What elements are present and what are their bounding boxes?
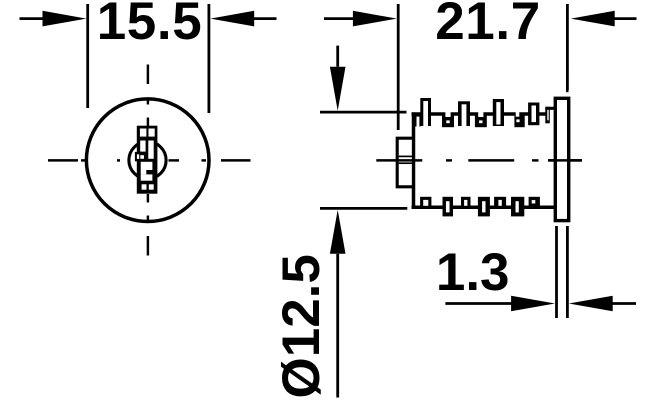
dimension 1.3 : right arrow: [611, 302, 637, 305]
keyhole cell mid-right: [148, 141, 153, 159]
dimension 15.5 : right extension line: [207, 4, 210, 113]
dimension 15.5 : left arrow: [20, 17, 46, 20]
keyhole lower cell bottom part: [141, 174, 153, 180]
bottom wafer tab 2: [478, 197, 490, 217]
dimension diameter 12.5 : top extension line: [320, 111, 407, 114]
collar ledge before flange (top): [545, 107, 556, 110]
dimension 21.7 : right extension line: [566, 4, 569, 90]
dimension diameter 12.5 : down arrow: [336, 46, 339, 67]
dimension diameter 12.5 : up arrow: [336, 254, 339, 398]
keyhole plate body: [137, 126, 158, 194]
svg-text:21.7: 21.7: [435, 0, 541, 51]
dimension 1.3 : right extension line: [566, 226, 569, 318]
horizontal centerline (side view): [376, 159, 582, 161]
keyhole cell mid-left upper: [140, 141, 145, 152]
dimension 15.5 : left extension line: [86, 4, 89, 108]
flange at right end: [555, 98, 568, 220]
vertical centerline (front view): [147, 65, 149, 256]
body top line: [412, 112, 547, 116]
body bottom line: [412, 206, 556, 210]
keyhole left side tab hole: [137, 154, 139, 159]
bottom wafer tab 1: [443, 197, 454, 217]
bottom bump 2: [461, 197, 471, 207]
top slot 3: [514, 113, 524, 128]
core circle (plug): [129, 142, 166, 179]
cylinder face outer circle: [86, 99, 209, 222]
keyhole lower cell upper part: [141, 162, 153, 170]
body left edge: [412, 112, 416, 208]
keyhole cell top-left: [140, 129, 147, 137]
nose inner line 1: [399, 155, 412, 157]
slot at body left edge (top): [415, 113, 421, 127]
svg-text:15.5: 15.5: [97, 0, 203, 51]
keyhole cell bottom-left: [142, 184, 147, 189]
svg-text:1.3: 1.3: [436, 243, 510, 302]
top wafer tab 1: [420, 98, 431, 126]
horizontal centerline (front view): [48, 159, 251, 161]
dimension 21.7 : right arrow: [612, 17, 637, 20]
bottom bump 3: [494, 197, 506, 207]
top wafer tab 4: [528, 103, 539, 126]
keyhole cell mid-left lower: [140, 155, 144, 159]
dimension 1.3 : left arrow: [445, 302, 513, 305]
keyhole cell bottom-right: [149, 184, 154, 189]
top wafer tab 3: [493, 99, 504, 126]
dimension 15.5 : right arrow: [252, 17, 277, 20]
dimension diameter 12.5 : bottom extension line: [320, 207, 407, 210]
top wafer tab 2: [458, 101, 470, 126]
vertical centerline at flange: [566, 67, 568, 93]
keyhole lower cell left strip: [141, 170, 147, 174]
nose inner line 2: [399, 162, 412, 164]
nose (cam) on left end: [397, 138, 413, 187]
centerline dash through nose: [396, 159, 414, 161]
top collar wall before flange: [545, 107, 550, 124]
bottom wafer tab 3: [511, 197, 524, 217]
bottom bump 1: [420, 197, 431, 207]
dimension 21.7 : left arrow: [324, 17, 355, 20]
centerline dash crossing flange: [548, 159, 582, 161]
keyhole left side tab: [135, 152, 140, 161]
top slot 1: [442, 113, 454, 128]
keyhole cell top-right: [149, 129, 155, 137]
dimension 21.7 : left extension line: [397, 4, 400, 130]
bottom bump 4: [529, 197, 540, 207]
top slot 2: [475, 113, 487, 128]
svg-text:Ø12.5: Ø12.5: [272, 254, 331, 398]
dimension 1.3 : left extension line: [555, 226, 558, 318]
